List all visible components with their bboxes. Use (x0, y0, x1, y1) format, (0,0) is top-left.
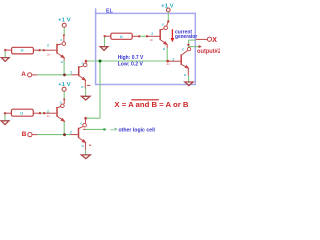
svg-text:u: u (20, 111, 23, 116)
svg-text:u: u (120, 34, 123, 39)
svg-text:2: 2 (70, 130, 72, 134)
svg-text:2n: 2n (47, 114, 51, 118)
svg-text:2: 2 (47, 43, 49, 47)
svg-text:EL: EL (106, 9, 114, 15)
svg-text:A: A (21, 71, 26, 78)
svg-text:c: c (80, 121, 82, 125)
svg-text:+1 V: +1 V (58, 18, 71, 24)
svg-text:2: 2 (172, 58, 174, 62)
svg-text:+1 V: +1 V (58, 82, 71, 88)
svg-text:generator: generator (175, 34, 197, 40)
svg-text:u: u (163, 47, 165, 51)
svg-text:+1 V: +1 V (161, 3, 174, 9)
svg-text:u: u (82, 144, 84, 148)
svg-text:2n: 2n (47, 52, 51, 56)
svg-text:X: X (212, 37, 217, 44)
svg-text:c: c (60, 100, 62, 104)
svg-text:B: B (22, 131, 27, 138)
svg-text:High: 0.7 V: High: 0.7 V (118, 55, 144, 61)
svg-text:other logic cell: other logic cell (119, 127, 156, 133)
svg-text:-->: --> (110, 127, 117, 133)
svg-text:2: 2 (70, 70, 72, 74)
svg-text:u: u (21, 48, 24, 53)
svg-text:Low: 0.2 V: Low: 0.2 V (118, 61, 143, 67)
svg-text:u: u (61, 60, 63, 64)
svg-text:2: 2 (151, 32, 153, 36)
svg-text:output#2: output#2 (197, 48, 220, 55)
svg-text:c: c (182, 48, 184, 52)
svg-text:c: c (82, 61, 84, 65)
svg-text:c: c (60, 38, 62, 42)
svg-text:X = A and B = A or B: X = A and B = A or B (114, 100, 188, 109)
svg-text:u: u (81, 85, 83, 89)
svg-text:u: u (184, 73, 186, 77)
svg-text:2n: 2n (167, 62, 171, 66)
svg-text:2n: 2n (150, 38, 154, 42)
svg-text:c: c (162, 23, 164, 27)
svg-text:2: 2 (47, 109, 49, 113)
